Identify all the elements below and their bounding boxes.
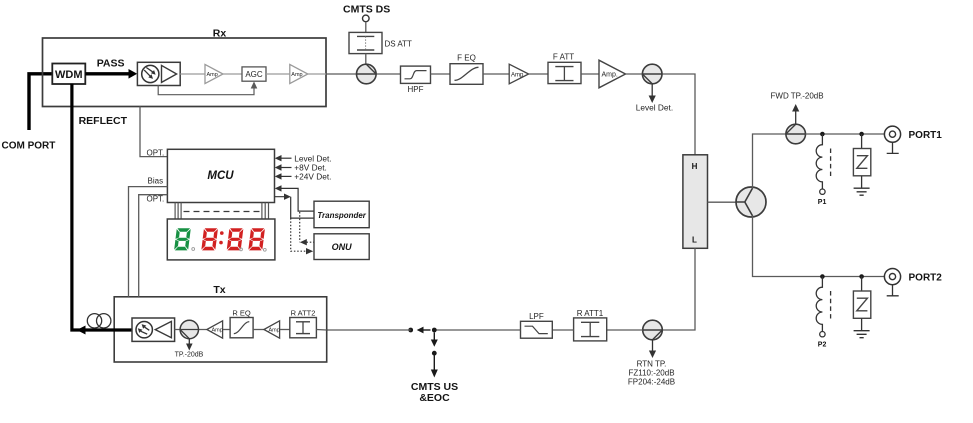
Transponder box	[314, 201, 369, 228]
svg-text:LPF: LPF	[529, 312, 544, 321]
svg-text:FP204:-24dB: FP204:-24dB	[628, 378, 675, 387]
wire OPT2 MCU to Tx	[139, 195, 168, 297]
svg-text:PORT1: PORT1	[909, 130, 943, 141]
svg-text:+24V Det.: +24V Det.	[294, 172, 331, 182]
svg-text:FWD TP.-20dB: FWD TP.-20dB	[771, 92, 824, 101]
svg-text:Rx: Rx	[213, 28, 227, 40]
amplifier Amp5 (Tx)	[207, 321, 223, 338]
attenuator DS ATT	[349, 32, 382, 53]
fiber loop	[87, 314, 101, 328]
wire FATT to Amp4	[581, 73, 599, 75]
arrow between nodes	[423, 329, 431, 331]
wire dotted ONU to MCU	[300, 212, 314, 242]
ONU box	[314, 234, 369, 260]
svg-text:P1: P1	[818, 199, 827, 206]
svg-text:R ATT2: R ATT2	[291, 308, 316, 317]
node dot right	[432, 328, 437, 333]
wire reflect thick optical line	[72, 84, 132, 330]
svg-text:Amp: Amp	[269, 327, 280, 333]
colon	[220, 231, 224, 235]
svg-text:R EQ: R EQ	[232, 308, 251, 317]
svg-text:Amp: Amp	[207, 72, 218, 78]
svg-text:CMTS DS: CMTS DS	[343, 3, 390, 15]
wire LPF to node	[434, 329, 520, 331]
Tx block box	[114, 297, 327, 362]
MCU input arrow 8V	[280, 167, 292, 169]
wire splitter up to FWD row	[753, 134, 787, 189]
amplifier Amp3	[509, 64, 528, 84]
equalizer R EQ	[230, 318, 253, 338]
photodiode PD	[142, 65, 159, 82]
wire PD to Amp1	[180, 73, 205, 75]
svg-text:RTN TP.: RTN TP.	[637, 360, 667, 369]
wire Amp1 to AGC	[223, 73, 242, 75]
coupler FWD test point	[786, 124, 806, 144]
MCU input arrow 24V	[280, 175, 292, 177]
attenuator R ATT1	[574, 318, 607, 341]
ribbon cable dashed	[184, 211, 261, 213]
svg-text:Amp: Amp	[291, 72, 302, 78]
wire Rx output to DS coupler to HPF	[308, 73, 326, 75]
CMTS DS port circle	[363, 15, 370, 22]
digit 1 green	[174, 228, 191, 250]
wire R EQ to Amp6	[253, 329, 264, 331]
node junction dot	[820, 274, 825, 279]
svg-text:Amp.: Amp.	[602, 72, 618, 79]
inductor P2 choke	[816, 277, 822, 332]
svg-text:&EOC: &EOC	[419, 392, 450, 404]
wire FWD coupler to PORT1	[806, 133, 885, 135]
splitter 2-way	[736, 187, 766, 217]
wire HPF to FEQ	[431, 73, 451, 75]
node dot left	[408, 328, 413, 333]
digit 4 red	[248, 228, 265, 250]
wire diplexer to splitter	[708, 201, 738, 203]
amplifier Amp2 (Rx)	[290, 64, 308, 83]
svg-text:AGC: AGC	[245, 70, 263, 79]
svg-text:Level Det.: Level Det.	[636, 103, 673, 113]
attenuator F ATT	[548, 62, 581, 83]
wire Amp6 to R ATT2	[280, 329, 290, 331]
amplifier Amp6 (Tx)	[264, 321, 280, 338]
svg-text:DS ATT: DS ATT	[385, 39, 413, 48]
svg-text:OPT.: OPT.	[147, 195, 165, 204]
wire node to Tx box	[327, 329, 411, 331]
connector PORT1	[884, 126, 900, 142]
ground 1	[854, 188, 870, 195]
HPF box	[401, 66, 431, 83]
wire R ATT1 to LPF	[552, 329, 573, 331]
digit 2 red	[201, 228, 218, 250]
wire dotted MCU to ONU	[291, 218, 306, 251]
svg-text:ONU: ONU	[332, 242, 353, 252]
wire PASS thick arrow WDM to photodiode	[85, 72, 129, 75]
MCU input arrow Level Det	[280, 157, 292, 159]
wire MCU out to transponder	[275, 197, 314, 218]
MCU box	[167, 149, 274, 202]
wire FEQ to Amp3	[483, 73, 509, 75]
buffer amp triangle in PD box	[162, 65, 177, 82]
wire Bias MCU to Tx	[129, 187, 168, 297]
attenuator R ATT2	[290, 318, 317, 338]
laser module box	[132, 318, 175, 341]
svg-text:R ATT1: R ATT1	[577, 309, 604, 318]
wire CMTS DS to DS ATT	[365, 22, 367, 33]
diplexer H/L	[683, 155, 708, 249]
coupler RTN test point	[643, 320, 663, 340]
coupler DS injection	[357, 64, 377, 84]
equalizer F EQ	[450, 64, 483, 85]
digit 3 red	[227, 228, 244, 250]
wire R ATT2 to Tx box edge	[316, 329, 326, 332]
svg-text:Amp: Amp	[212, 327, 223, 333]
wire level det tap arrow	[651, 84, 653, 96]
svg-text:P2: P2	[818, 342, 827, 349]
wire AGC to Amp2	[266, 73, 290, 75]
svg-text:F ATT: F ATT	[553, 53, 574, 62]
wire Amp4 to corner and down to diplexer H	[626, 74, 696, 155]
wire FWD TP arrow up	[795, 111, 797, 124]
node junction dot	[859, 274, 864, 279]
svg-text:H: H	[692, 162, 698, 171]
laser driver triangle	[155, 321, 171, 337]
decimal rings	[192, 248, 195, 251]
svg-text:Bias: Bias	[148, 177, 164, 186]
AGC box	[242, 67, 266, 81]
wire Amp3 to FATT	[529, 73, 548, 75]
svg-text:PORT2: PORT2	[909, 272, 943, 283]
amplifier Amp4	[599, 60, 626, 88]
laser diode	[136, 322, 152, 338]
wire OPT1 Rx to MCU	[140, 106, 167, 156]
svg-text:TP.-20dB: TP.-20dB	[175, 352, 204, 359]
wire RTN coupler to R ATT1	[607, 329, 643, 331]
Rx block box	[43, 38, 327, 107]
connector pins left	[175, 203, 181, 220]
wire RTN TP arrow down	[652, 340, 654, 351]
arrow down to CMTS US	[433, 356, 435, 371]
wire COM PORT thick line	[29, 74, 53, 130]
svg-text:Amp: Amp	[511, 72, 524, 78]
connector pins right	[262, 203, 269, 220]
wire DS ATT to coupler	[365, 54, 367, 65]
inductor P1 choke	[816, 134, 822, 189]
svg-text:OPT.: OPT.	[147, 148, 165, 157]
node junction dot	[820, 132, 825, 137]
ground 2	[854, 331, 870, 338]
svg-text:L: L	[692, 236, 697, 245]
svg-text:F EQ: F EQ	[457, 53, 476, 62]
wire laser to TP coupler	[175, 329, 207, 331]
amplifier Amp1 (Rx)	[205, 64, 223, 83]
wire Amp5 to R EQ	[223, 329, 231, 331]
node dot lower	[432, 351, 437, 356]
wire diplexer L down to RTN row	[662, 248, 695, 330]
display box	[167, 219, 275, 260]
wire splitter down to PORT2 row	[753, 215, 885, 276]
node junction dot	[859, 132, 864, 137]
svg-text:FZ110:-20dB: FZ110:-20dB	[628, 369, 674, 378]
svg-text:Transponder: Transponder	[317, 210, 366, 220]
wire Tx TP arrow down	[188, 339, 190, 344]
wire transponder to MCU	[280, 188, 314, 211]
WDM box	[52, 64, 85, 85]
svg-text:PASS: PASS	[97, 58, 125, 70]
wire AGC feedback	[158, 85, 254, 95]
svg-text:REFLECT: REFLECT	[79, 115, 128, 127]
LPF box	[521, 321, 553, 338]
surge arrester 1	[861, 134, 863, 149]
svg-text:COM PORT: COM PORT	[2, 141, 56, 152]
surge arrester 2	[861, 277, 863, 292]
coupler Tx test point	[180, 320, 198, 338]
svg-text:WDM: WDM	[55, 69, 83, 81]
connector PORT2	[884, 269, 900, 285]
coupler level detector tap	[642, 64, 662, 84]
svg-text:MCU: MCU	[207, 170, 234, 182]
photodiode module box	[137, 62, 180, 85]
svg-text:HPF: HPF	[408, 85, 424, 94]
arrow down from node	[433, 333, 435, 341]
svg-text:Tx: Tx	[213, 284, 225, 296]
